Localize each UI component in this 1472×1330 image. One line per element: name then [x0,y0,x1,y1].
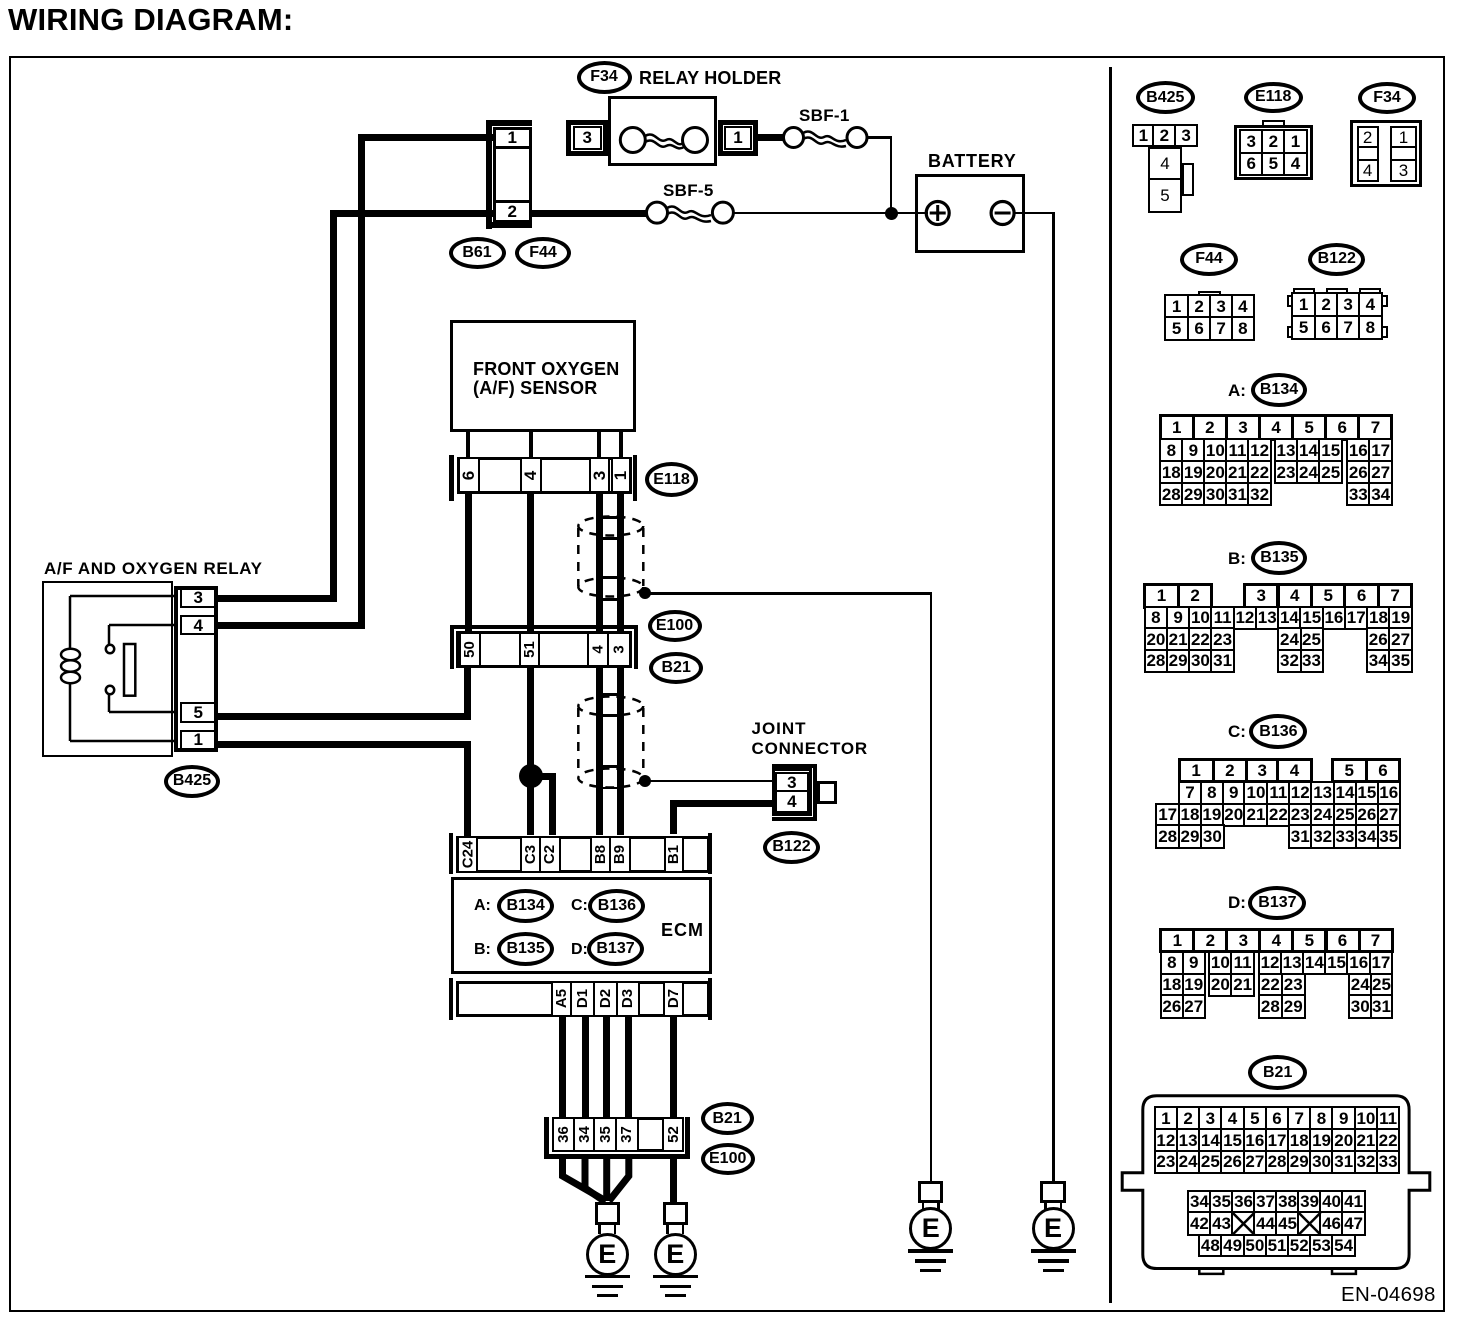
wire relay pin1 [218,741,471,748]
shield 2 drain node [639,775,651,787]
panel B137 top row [1159,928,1195,953]
E118 pin 3 cell [589,457,610,494]
label JOINT [752,720,807,739]
panel B122 cells row2 [1291,315,1317,341]
connector E118 strip box [457,457,632,495]
wire shield1 drain drop to ground [930,593,933,1181]
wire relay pin3 [218,595,337,602]
ECM pin C2 cell [539,836,562,873]
panel E118 top tab [1262,120,1285,127]
relay pin 3 cell [180,588,216,609]
label SBF-5 [663,182,714,201]
joint connector pin 3 cell [775,772,810,793]
connector E100-B21 strip box [456,631,632,669]
relay holder pin 1 connector box [718,120,758,156]
relay pin 1 cell [180,730,216,751]
bottom strip pin 34 cell [573,1117,596,1153]
wire corner down to battery node [890,138,893,214]
panel oval B21 [1248,1055,1307,1090]
ECM oval B136 [588,889,645,923]
connector label oval B425 [164,765,220,798]
wire E118-4 down to pin51 [527,494,534,633]
panel B137 row2 [1160,951,1184,975]
connector pair B61 F44 inner box [493,127,532,223]
connector label oval F34 [577,61,632,94]
relay holder pin 3 connector box [566,120,608,156]
wire 52 to ground [670,1158,677,1204]
label A/F AND OXYGEN RELAY [44,560,263,579]
ECM pin D7 cell [663,981,684,1017]
panel B425 side tab [1182,163,1194,196]
panel B134 row2 [1159,438,1184,462]
connector B21-E100 bottom strip box [552,1117,684,1153]
E118 pin 1 cell [611,457,631,494]
wire SBF-1 to corner [866,136,892,139]
label A: [1228,382,1246,401]
panel B135 row4 [1144,649,1169,673]
wire pin51 to junction [527,668,534,776]
fuse SBF-1 [775,100,875,180]
panel F44 cells row2 [1164,316,1190,341]
ground E right-2 [1040,1181,1065,1203]
label D: [1228,894,1246,913]
fusible link inside relay holder [600,100,720,180]
label B: [474,941,491,959]
ECM top strip bracket [449,833,453,874]
shield 1 drain node [639,587,651,599]
wire D1 to 34 [582,1017,589,1117]
panel oval F34 [1358,82,1416,114]
battery box [915,174,1025,253]
wire relay holder pin1 to SBF-1 [755,134,784,141]
ECM pin B1 cell [664,836,684,873]
label B: [1228,550,1246,569]
shielded wire B9 [617,494,624,835]
connector E100-B21 mid strip bracket [450,625,638,629]
panel oval B137 [1248,886,1306,920]
wire shield1 drain to right [650,592,932,595]
label A: [474,897,491,915]
label FRONT OXYGEN [473,360,619,380]
panel B122 top tabs [1293,288,1316,294]
panel B21 crossed cells [1220,1205,1340,1245]
wire battery negative to right drop [1013,212,1055,215]
panel B136 row3 [1155,803,1180,827]
joint connector outer bracket [772,764,817,768]
ECM pin C24 cell [457,836,478,873]
ground E left-2 [663,1202,688,1224]
joint connector inner box [772,768,812,815]
panel oval B134 [1251,373,1307,407]
wire D2 to 35 [603,1017,610,1117]
bottom strip pin 37 cell [615,1117,639,1153]
joint connector side tab [817,781,837,804]
bottom strip pin 35 cell [593,1117,617,1153]
panel oval E118 [1244,82,1303,113]
panel B137 row4 [1160,994,1184,1018]
sensor lead stubs [466,432,470,458]
label ECM [661,921,704,941]
panel F34 outer box [1350,120,1422,187]
panel oval F44 [1180,243,1238,276]
ground E right-1 [918,1181,943,1203]
connector B21-E100 bottom strip bracket [544,1117,549,1159]
panel B122 cells row1 [1291,292,1317,318]
bottom strip pin 52 cell [662,1117,684,1153]
connector label oval B122 [763,831,820,864]
ground E left-1 [595,1202,620,1224]
wire ECM B1 riser [670,800,677,834]
ECM bottom strip box [456,981,710,1017]
fuse SBF-5 [640,175,740,255]
E118 pin 6 cell [458,457,480,494]
connector label oval B21 bottom [701,1102,754,1135]
panel B135 row3 [1144,627,1169,651]
connector label oval B61 [449,237,506,269]
panel F34 right column [1390,126,1417,148]
mid strip pin 4 cell [587,632,610,667]
connector pair B61 F44 outer bracket [486,120,492,229]
wire to B61-F44 pin2 [330,210,493,217]
panel B135 row2 [1144,606,1169,630]
label SBF-1 [799,107,850,126]
panel E118 outer box [1234,125,1313,180]
wire E118-6 down to pin50 [465,494,472,633]
ECM pin D3 cell [616,981,640,1017]
panel B21 connector outline [1115,1090,1440,1280]
wire B61-F44 pin2 to SBF-5 [528,210,647,217]
panel oval B136 [1249,714,1307,749]
wire shield2 drain to joint connector pin3 [650,780,772,783]
label (A/F) SENSOR [473,379,597,399]
connector label oval B21 mid [649,652,703,684]
panel B135 top row left [1143,583,1180,609]
relay pin 4 cell [180,615,216,636]
ECM oval B135 [497,932,554,966]
panel B122 box [1292,293,1382,339]
panel B134 top row [1159,414,1195,441]
ECM bottom strip bracket [449,978,453,1019]
panel B21 grid top rows [1154,1106,1179,1130]
panel F44 top tab [1198,291,1221,297]
panel divider line [1109,67,1112,1303]
panel B425 pin 4 cell [1148,147,1182,180]
mid strip pin 3 cell [607,632,631,667]
battery negative terminal [983,195,1027,235]
wire B1 to joint connector pin4 [671,800,773,807]
relay coil and contacts [40,580,180,760]
relay pin 5 cell [180,702,216,723]
panel F44 box [1165,295,1254,340]
panel B136 top row right [1331,758,1368,783]
relay connector strip B425 [174,586,218,752]
wire battery negative drop to ground [1052,213,1055,1181]
connector label oval E100 bottom [701,1143,755,1175]
ECM oval B137 [587,932,644,966]
mid strip pin 51 cell [519,632,540,667]
joint connector pin 4 cell [775,790,810,813]
panel F34 left column [1357,126,1379,148]
panel B136 row2 [1178,781,1202,805]
panel B425 pin row 1-3 [1132,124,1155,147]
shield 1 dashed cylinder [570,510,660,605]
panel B122 side tabs [1287,295,1294,307]
ECM pin D1 cell [570,981,595,1017]
panel B136 row4 [1155,824,1180,848]
ECM oval B134 [497,889,554,923]
wire D3 to 37 [625,1017,632,1117]
label BATTERY [928,152,1017,172]
panel oval B425 [1136,81,1195,114]
shield 2 dashed cylinder [570,690,660,795]
panel B137 row3 [1160,973,1184,997]
ECM pin C3 cell [520,836,541,873]
panel E118 cells [1239,129,1264,154]
ground funnel wires [540,1150,650,1210]
wire relay pin5 riser to pin50 [464,666,471,720]
panel B21 grid bottom row [1198,1234,1223,1258]
E118 pin 4 cell [520,457,542,494]
panel oval B135 [1251,541,1307,575]
twisted pair rungs [600,516,619,519]
ECM pin B9 cell [609,836,632,873]
shielded wire B8 [596,494,603,835]
panel B134 row3 [1159,460,1184,484]
junction node at battery feed [885,207,898,220]
ECM top strip box [456,836,710,873]
panel oval B122 [1308,243,1365,276]
pin 1 cell of B61-F44 [493,127,532,150]
panel B134 row4 [1159,482,1184,506]
junction node to C3 C2 [519,764,543,788]
vertical feed wire x333 [330,210,337,603]
vertical feed wire x361 [358,134,365,628]
mid strip pin 50 cell [459,632,481,667]
label CONNECTOR [752,740,868,759]
panel B425 pin 5 cell [1148,178,1182,214]
wire D7 to 52 [670,1017,677,1117]
panel F44 cells row1 [1164,294,1190,319]
wire relay pin4 [218,622,365,629]
panel B135 top row right [1243,583,1279,609]
bottom strip pin 36 cell [552,1117,575,1153]
ECM body box [451,877,712,974]
wire A5 to 36 [559,1017,566,1117]
label C: [1228,723,1246,742]
connector label oval E118 [645,462,698,497]
wire junction branch to C2 [531,773,556,780]
connector E118 bracket [449,455,454,501]
relay holder box F34 [608,96,717,166]
ECM pin A5 cell [551,981,572,1017]
wire SBF-5 to battery positive [732,212,928,215]
ECM pin D2 cell [593,981,618,1017]
pin 2 cell of B61-F44 [493,200,532,223]
label D: [571,941,588,959]
page title [8,3,293,37]
battery positive terminal [918,195,962,235]
wire relay pin1 drop to C24 [464,741,471,836]
relay outer box [42,581,173,757]
connector label oval E100 mid [648,610,702,642]
wire relay pin5 [218,713,471,720]
label RELAY HOLDER [639,69,781,89]
drawing number EN-04698 [1341,1284,1436,1307]
wire junction to C3 [527,776,534,835]
wire to B61-F44 pin1 [358,134,493,141]
connector label oval F44 [515,237,571,269]
front oxygen sensor box [450,320,636,432]
panel B21 grid middle rows [1187,1190,1212,1214]
ECM pin B8 cell [590,836,611,873]
panel B136 top row left [1178,758,1215,783]
label C: [571,897,588,915]
